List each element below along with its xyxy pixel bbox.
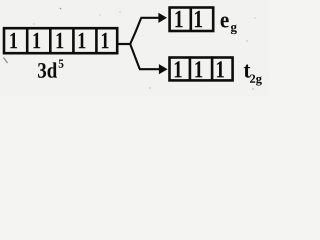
- orbital box eg (2 cells): [170, 7, 214, 33]
- electron "1" in t2g cell 1: [175, 61, 182, 77]
- label e of eg: [221, 16, 229, 27]
- subscript g of eg: [231, 25, 237, 35]
- electron "1" in 3d cell 1: [10, 33, 17, 49]
- electron "1" in eg cell 2: [195, 11, 202, 28]
- arrowhead into eg box: [159, 13, 167, 22]
- wire lower diagonal of fork: [130, 43, 140, 69]
- wire from 3d box to fork junction: [117, 43, 131, 45]
- wire lower horizontal to t2g: [139, 68, 160, 70]
- label t of t2g: [244, 65, 251, 78]
- arrowhead into t2g box: [159, 65, 167, 74]
- electron "1" in 3d cell 3: [57, 33, 64, 49]
- scan paper noise: [0, 0, 269, 96]
- electron "1" in 3d cell 2: [33, 33, 40, 49]
- superscript 5 of 3d5: [59, 60, 64, 68]
- subscript 2g of t2g: [250, 75, 255, 83]
- orbital diagram box 3d5 (5 cells): [4, 27, 117, 54]
- orbital box t2g (3 cells): [170, 56, 233, 81]
- wire upper diagonal of fork: [130, 18, 141, 45]
- electron "1" in eg cell 1: [175, 11, 182, 28]
- scan speckle dots: [33, 8, 255, 90]
- electron "1" in t2g cell 3: [217, 61, 224, 77]
- label 3d: [38, 63, 46, 78]
- wire upper horizontal to eg: [140, 17, 159, 19]
- electron "1" in 3d cell 5: [102, 33, 109, 49]
- electron "1" in 3d cell 4: [79, 33, 86, 49]
- scan speckle stroke lower-left: [4, 58, 8, 64]
- electron "1" in t2g cell 2: [195, 61, 202, 77]
